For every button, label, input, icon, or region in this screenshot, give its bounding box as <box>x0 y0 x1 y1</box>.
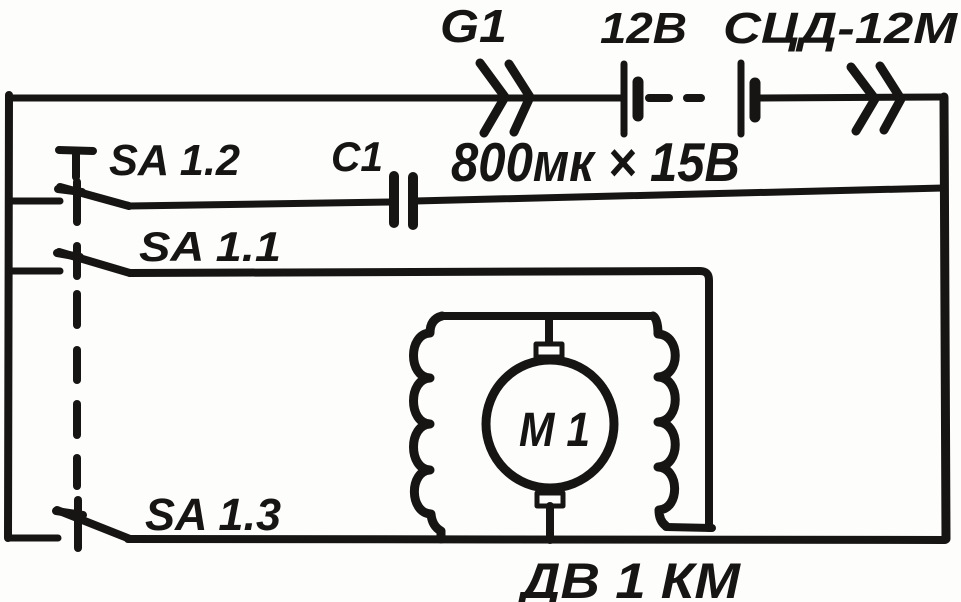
svg-text:ДВ 1 КМ: ДВ 1 КМ <box>517 553 742 602</box>
wire row2 left stub <box>9 198 60 205</box>
svg-text:G1: G1 <box>440 0 507 52</box>
capacitor C1 left plate <box>389 176 399 223</box>
svg-text:12В: 12В <box>600 4 687 53</box>
switch SA1.2 blade <box>60 187 129 206</box>
switch SA1.2 pivot barb <box>58 189 82 192</box>
battery GB left cell long electrode <box>621 64 628 134</box>
wire bottom bus <box>128 539 945 540</box>
svg-text:СЦД-12М: СЦД-12М <box>723 4 959 53</box>
capacitor C1 right plate <box>408 177 418 225</box>
motor M1 bottom brush <box>537 493 563 506</box>
svg-text:SA 1.2: SA 1.2 <box>109 136 241 185</box>
wire motor top lead <box>545 316 553 344</box>
wire row2 capacitor to right bus <box>415 188 943 201</box>
wire left bus <box>8 95 9 538</box>
wire motor top <box>442 312 653 320</box>
svg-text:М 1: М 1 <box>519 404 590 457</box>
switch SA1.1 pivot barb <box>57 253 80 257</box>
switch SA1.3 blade <box>57 510 130 539</box>
svg-text:SA 1.1: SA 1.1 <box>139 223 281 270</box>
inductor L2 right field coil <box>653 316 675 526</box>
battery dashed link wire <box>649 94 701 102</box>
battery GB right cell short electrode <box>750 83 761 117</box>
switch linkage dashed line <box>77 182 78 548</box>
motor M1 body <box>486 360 614 488</box>
svg-text:C1: C1 <box>331 133 383 180</box>
wire coil bottom link <box>666 527 712 528</box>
inductor L1 left field coil <box>414 316 443 539</box>
wire row3 to vertical drop <box>130 271 709 528</box>
wire top bus <box>9 95 621 102</box>
motor M1 top brush <box>536 344 562 357</box>
switch SA1.3 pivot barb <box>56 511 83 515</box>
switch SA1.1 blade <box>59 252 130 273</box>
wire motor bottom lead <box>546 506 554 540</box>
wire right bus <box>944 97 946 539</box>
switch SA1.2 handle <box>59 150 93 177</box>
connector X2 socket СЦД-12М <box>851 66 901 131</box>
svg-text:SA 1.3: SA 1.3 <box>145 489 281 540</box>
battery GB right cell long electrode <box>738 63 745 134</box>
wire bottom left stub <box>9 535 58 542</box>
connector X1 plug G1 <box>480 63 530 133</box>
wire top bus right segment <box>760 97 941 98</box>
wire row3 left stub <box>9 268 60 275</box>
svg-text:800мк × 15В: 800мк × 15В <box>451 131 740 193</box>
wire row2 to capacitor <box>129 202 392 206</box>
battery GB left cell short electrode <box>633 82 644 116</box>
